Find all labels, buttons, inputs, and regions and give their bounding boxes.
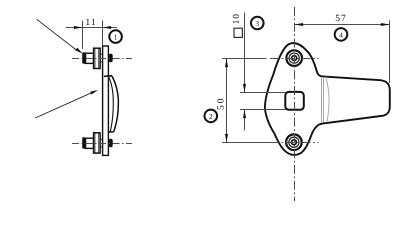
- svg-text:4: 4: [339, 30, 343, 39]
- svg-text:1: 1: [114, 33, 118, 42]
- svg-text:3: 3: [255, 19, 259, 28]
- svg-text:2: 2: [209, 112, 213, 121]
- svg-text:50: 50: [217, 97, 227, 111]
- svg-text:10: 10: [232, 13, 242, 24]
- svg-text:57: 57: [335, 14, 347, 24]
- svg-text:11: 11: [85, 18, 96, 28]
